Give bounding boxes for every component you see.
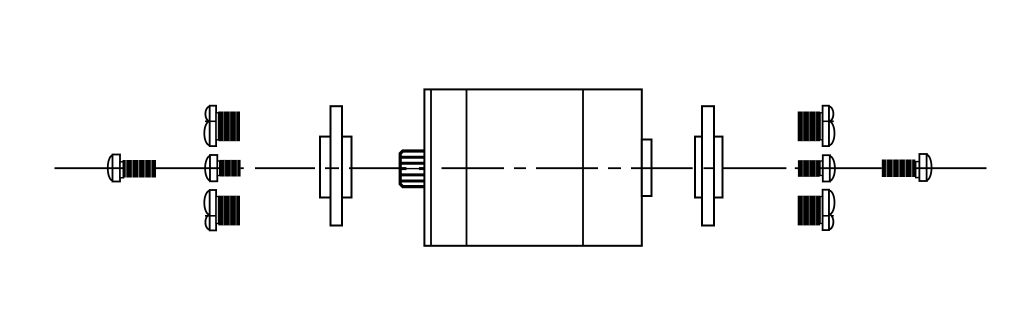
left bolt neck: [120, 162, 124, 178]
centerline short dash in body 1: [514, 167, 526, 169]
centerline dash right middle screw to right bolt: [820, 167, 882, 169]
left bottom screw threaded shank: [218, 196, 240, 226]
right flange hub: [695, 137, 723, 198]
centerline short dash in body 2: [608, 167, 621, 169]
right top screw dome: [829, 107, 835, 146]
centerline segment right bolt to far right: [916, 167, 987, 169]
centerline dash inside right flange: [704, 167, 714, 169]
right bolt neck: [916, 162, 920, 178]
right top screw threaded shank: [798, 112, 820, 142]
centerline dash left flange to spline shaft: [349, 167, 399, 169]
right bolt head: [919, 154, 927, 181]
left top screw head: [205, 106, 216, 146]
left bolt head: [113, 155, 121, 182]
left middle screw neck: [217, 161, 219, 176]
centerline long dash in body 1: [442, 167, 505, 169]
left top screw threaded shank: [218, 112, 240, 142]
centerline segment far left to left bolt: [55, 167, 123, 169]
right flange plate: [702, 106, 714, 225]
centerline long dash in body 2: [536, 167, 598, 169]
right middle screw threaded shank: [798, 160, 820, 177]
left flange hub: [320, 137, 352, 198]
right bottom screw neck: [820, 197, 822, 224]
centerline stub after middle screw: [241, 167, 244, 169]
left flange plate: [331, 106, 343, 225]
right bottom screw threaded shank: [798, 196, 820, 226]
left top screw dome: [204, 107, 210, 146]
right middle screw neck: [820, 161, 823, 176]
centerline segment left bolt to middle screw: [156, 167, 220, 169]
left middle screw threaded shank: [220, 160, 241, 177]
centerline stub before right middle screw: [795, 167, 798, 169]
right bottom screw head: [823, 190, 834, 230]
left bottom screw head: [205, 190, 216, 230]
splined input shaft: [400, 151, 424, 187]
left bolt head dome: [108, 155, 113, 180]
left middle screw dome: [205, 156, 210, 181]
pump body: [424, 89, 641, 245]
centerline dash inside left flange: [325, 167, 339, 169]
left bottom screw dome: [204, 191, 210, 230]
left middle screw head: [210, 155, 217, 181]
right top screw neck: [820, 113, 822, 140]
right bottom screw dome: [829, 191, 835, 230]
centerline dash right flange to middle screw: [723, 167, 786, 169]
right middle screw dome: [830, 156, 835, 181]
right bolt threaded shank: [882, 160, 916, 178]
left bolt threaded shank: [123, 160, 157, 178]
centerline long dash across stub: [631, 167, 693, 169]
right middle screw head: [823, 155, 830, 181]
left bottom screw neck: [216, 197, 218, 224]
pump rear stub: [642, 140, 652, 197]
left top screw neck: [216, 113, 218, 140]
centerline dash before left flange: [255, 167, 315, 169]
right top screw head: [823, 106, 834, 146]
right bolt head dome: [927, 155, 932, 180]
